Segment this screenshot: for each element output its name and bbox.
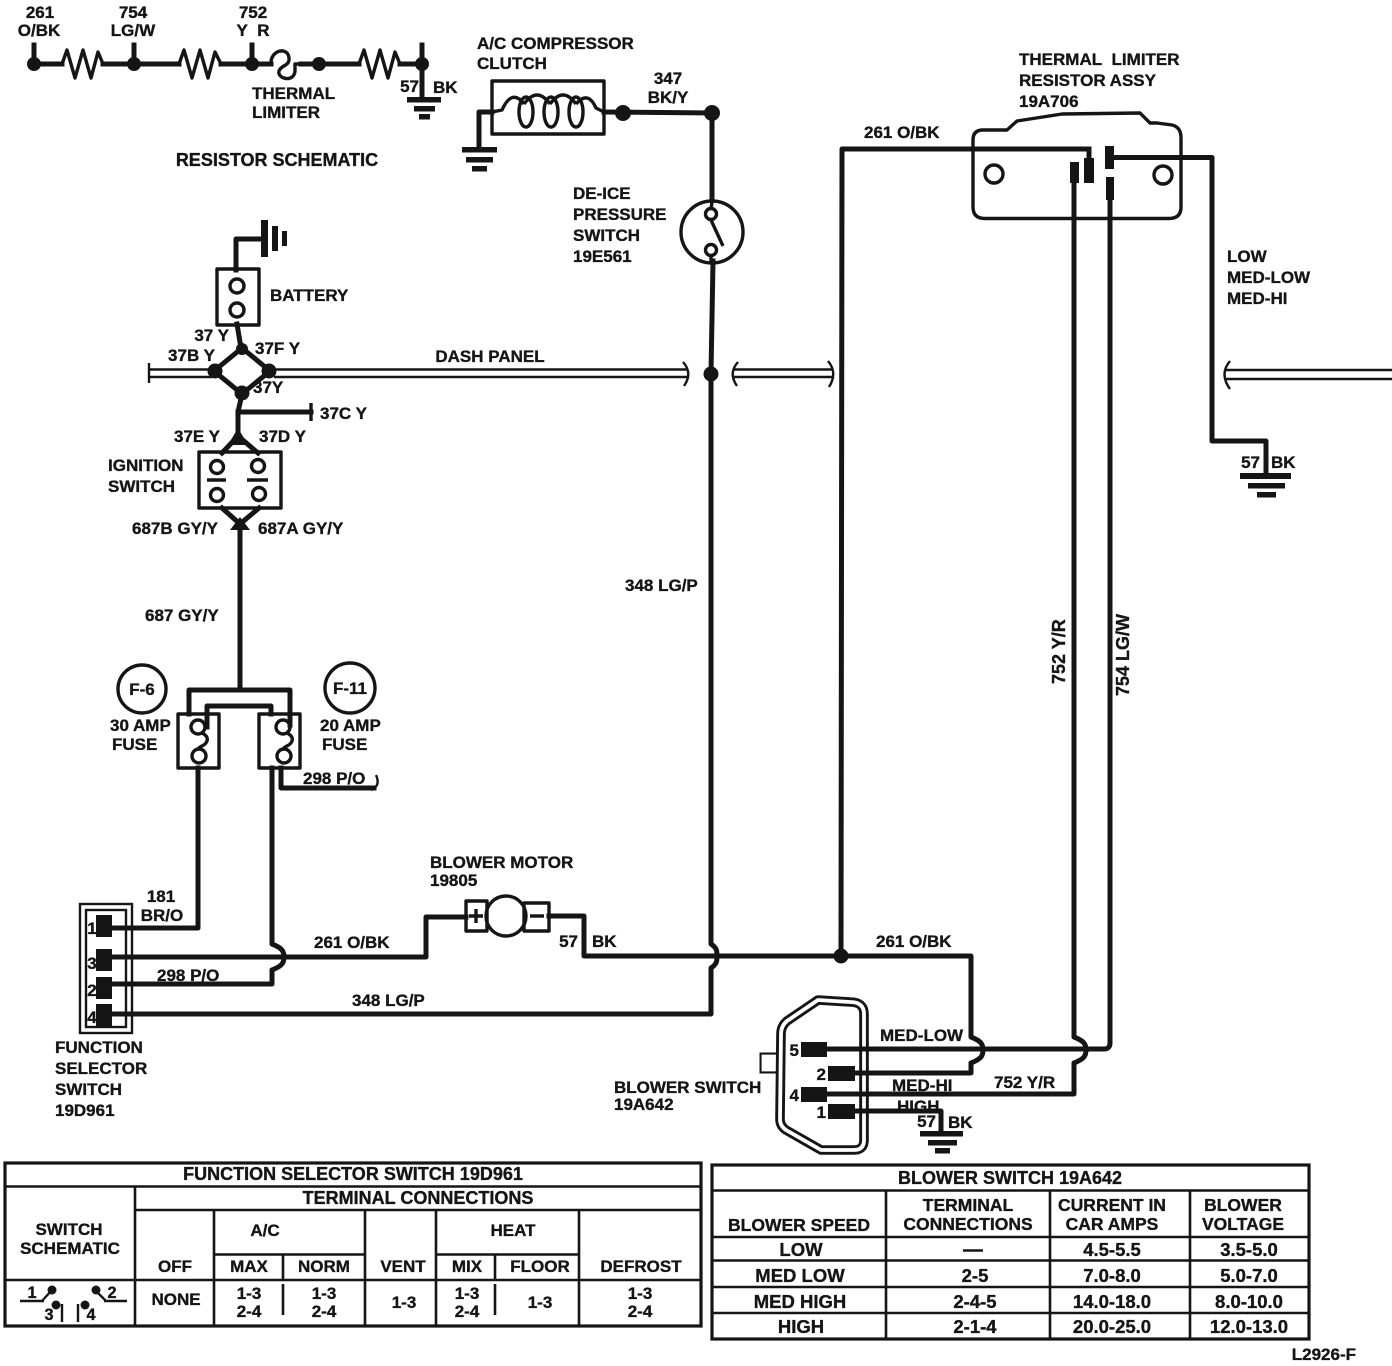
- wire 298 P/O: fuse F-11 down, hop over 261 wire, to pin 2: [112, 768, 284, 984]
- svg-text:SWITCH: SWITCH: [35, 1220, 102, 1239]
- svg-text:RESISTOR ASSY: RESISTOR ASSY: [1019, 71, 1157, 90]
- svg-text:754 LG/W: 754 LG/W: [1113, 614, 1133, 696]
- pin 3: [96, 949, 112, 971]
- wire 347 BK/Y: [604, 112, 712, 113]
- svg-text:19D961: 19D961: [55, 1101, 115, 1120]
- svg-text:298 P/O: 298 P/O: [303, 769, 365, 788]
- svg-text:SELECTOR: SELECTOR: [55, 1059, 147, 1078]
- label circle F-11: [325, 663, 375, 713]
- svg-text:BK: BK: [1271, 453, 1296, 472]
- svg-text:37B Y: 37B Y: [168, 346, 216, 365]
- svg-text:IGNITION: IGNITION: [108, 456, 184, 475]
- svg-text:19A706: 19A706: [1019, 92, 1079, 111]
- wire: battery to ground: [236, 239, 261, 270]
- svg-text:3.5-5.0: 3.5-5.0: [1220, 1239, 1278, 1260]
- svg-text:DASH PANEL: DASH PANEL: [435, 347, 544, 366]
- svg-text:MAX: MAX: [230, 1257, 268, 1276]
- svg-text:181: 181: [147, 887, 175, 906]
- wire 752 Y/R: assy terminal down, hop over MED-LOW, to blower switch pin 4: [830, 183, 1086, 1094]
- svg-text:57: 57: [400, 77, 419, 96]
- svg-text:HIGH: HIGH: [897, 1097, 940, 1116]
- terminal 752: [1070, 162, 1079, 183]
- node stub 57 BK: [420, 45, 425, 64]
- ground (right 57 BK): [1240, 473, 1291, 498]
- svg-text:8.0-10.0: 8.0-10.0: [1215, 1291, 1283, 1312]
- svg-text:Y R: Y R: [236, 21, 269, 40]
- svg-text:BLOWER SWITCH 19A642: BLOWER SWITCH 19A642: [898, 1168, 1122, 1188]
- svg-text:FUSE: FUSE: [112, 735, 157, 754]
- wire 687 GY/Y to fuse block: [238, 526, 243, 689]
- svg-text:L2926-F: L2926-F: [1292, 1345, 1356, 1364]
- svg-text:NORM: NORM: [298, 1257, 350, 1276]
- svg-text:BLOWER: BLOWER: [1204, 1195, 1282, 1215]
- splice diamond 37: [214, 348, 270, 394]
- svg-text:BK: BK: [433, 78, 458, 97]
- svg-text:752: 752: [239, 3, 267, 22]
- wire branch 37C Y: [238, 410, 311, 415]
- fuse F-6 30 AMP box: [178, 714, 219, 768]
- svg-text:20 AMP: 20 AMP: [320, 716, 381, 735]
- svg-text:30 AMP: 30 AMP: [110, 716, 171, 735]
- battery connector: [217, 269, 259, 325]
- svg-text:BATTERY: BATTERY: [270, 286, 349, 305]
- svg-text:348 LG/P: 348 LG/P: [625, 576, 698, 595]
- svg-text:19A642: 19A642: [614, 1095, 674, 1114]
- wire 261 O/BK feed up to thermal limiter assy: [841, 149, 1089, 956]
- svg-text:5.0-7.0: 5.0-7.0: [1220, 1265, 1278, 1286]
- svg-text:TERMINAL: TERMINAL: [923, 1195, 1014, 1215]
- dash panel left segment: [148, 370, 212, 378]
- blower switch pin 5: [801, 1042, 827, 1057]
- blower motor 19805: [466, 901, 487, 931]
- ground (battery, right-facing bars): [261, 220, 287, 257]
- svg-text:261 O/BK: 261 O/BK: [864, 123, 940, 142]
- pin 1: [96, 915, 112, 937]
- wire 57 BK: motor to junction: [549, 916, 838, 956]
- svg-text:DEFROST: DEFROST: [600, 1257, 682, 1276]
- wire 261 O/BK: pin 3 to blower motor: [112, 917, 466, 957]
- thermal limiter element: [271, 51, 301, 79]
- wire HIGH: pin 1 to ground 57 BK: [855, 1111, 941, 1132]
- node junction before thermal limiter output: [312, 57, 326, 71]
- svg-text:LOW: LOW: [1227, 247, 1268, 266]
- svg-text:57: 57: [559, 932, 578, 951]
- svg-text:261 O/BK: 261 O/BK: [314, 933, 390, 952]
- svg-text:FLOOR: FLOOR: [510, 1257, 570, 1276]
- svg-text:20.0-25.0: 20.0-25.0: [1073, 1316, 1151, 1337]
- svg-text:LIMITER: LIMITER: [252, 103, 320, 122]
- node stub 261 O/BK: [32, 45, 37, 64]
- svg-text:BR/O: BR/O: [141, 906, 184, 925]
- dash panel center segment: [274, 370, 688, 378]
- svg-text:F-6: F-6: [129, 680, 155, 699]
- svg-text:MED LOW: MED LOW: [755, 1265, 845, 1286]
- table: blower switch 19A642: [712, 1165, 1309, 1339]
- wire 754 LG/W: assy terminal down to MED-LOW wire: [830, 199, 1110, 1049]
- svg-text:LOW: LOW: [779, 1239, 823, 1260]
- splice 687 below ignition switch: [222, 508, 259, 524]
- svg-text:FUNCTION SELECTOR SWITCH 19D96: FUNCTION SELECTOR SWITCH 19D961: [183, 1164, 523, 1184]
- ignition switch box: [199, 452, 281, 508]
- svg-text:37D Y: 37D Y: [259, 427, 307, 446]
- node: 348 wire at dash panel: [704, 367, 719, 382]
- wire: diamond down to ignition switch: [238, 394, 242, 432]
- svg-text:37 Y: 37 Y: [194, 326, 229, 345]
- wire: 347 down to de-ice switch: [710, 113, 715, 200]
- ground (A/C clutch): [462, 147, 497, 172]
- svg-text:261: 261: [26, 3, 54, 22]
- svg-text:261 O/BK: 261 O/BK: [876, 932, 952, 951]
- svg-text:THERMAL: THERMAL: [252, 84, 335, 103]
- blower switch pin 1: [828, 1104, 855, 1119]
- svg-text:2: 2: [817, 1065, 826, 1084]
- svg-text:SCHEMATIC: SCHEMATIC: [20, 1239, 120, 1258]
- svg-text:2-4-5: 2-4-5: [953, 1291, 996, 1312]
- svg-text:1-3: 1-3: [455, 1284, 480, 1303]
- svg-text:SWITCH: SWITCH: [55, 1080, 122, 1099]
- wire 261 O/BK: junction right, down, hop over MED-LOW, to blower switch pin 2: [841, 956, 983, 1073]
- wire 181 BR/O: fuse F-6 to pin 1: [112, 768, 198, 928]
- wire: clutch to ground: [479, 112, 492, 148]
- wire: battery to splice diamond: [237, 324, 241, 348]
- svg-text:A/C: A/C: [250, 1221, 279, 1240]
- svg-text:4: 4: [87, 1008, 97, 1027]
- svg-text:CAR AMPS: CAR AMPS: [1066, 1214, 1159, 1234]
- svg-text:1: 1: [817, 1103, 826, 1122]
- resistor R2 (754 to 752 section): [179, 50, 221, 78]
- svg-text:2-4: 2-4: [628, 1302, 653, 1321]
- label circle F-6: [118, 665, 166, 713]
- svg-text:37F Y: 37F Y: [255, 339, 301, 358]
- wire: down to ground 57 BK: [420, 64, 425, 97]
- splice into ignition switch: [228, 428, 248, 445]
- table: function selector switch 19D961: [5, 1163, 701, 1326]
- svg-text:BLOWER MOTOR: BLOWER MOTOR: [430, 853, 573, 872]
- de-ice pressure switch 19E561: [681, 201, 743, 263]
- svg-text:CURRENT IN: CURRENT IN: [1058, 1195, 1166, 1215]
- svg-text:HEAT: HEAT: [490, 1221, 536, 1240]
- svg-text:BLOWER SPEED: BLOWER SPEED: [728, 1215, 870, 1235]
- node 347 junction: [704, 105, 720, 121]
- svg-text:3: 3: [44, 1306, 53, 1324]
- fuse feed bus inner: [207, 706, 271, 727]
- node junction 261/57: [834, 949, 849, 964]
- svg-text:2: 2: [87, 981, 96, 1000]
- svg-text:CLUTCH: CLUTCH: [477, 54, 547, 73]
- svg-text:2-1-4: 2-1-4: [953, 1316, 997, 1337]
- svg-text:37E Y: 37E Y: [174, 427, 221, 446]
- svg-text:MED-LOW: MED-LOW: [1227, 268, 1311, 287]
- svg-text:37Y: 37Y: [253, 378, 284, 397]
- svg-text:1-3: 1-3: [237, 1284, 262, 1303]
- svg-text:VOLTAGE: VOLTAGE: [1202, 1214, 1284, 1234]
- switch schematic symbol: [20, 1284, 127, 1324]
- svg-text:752 Y/R: 752 Y/R: [994, 1073, 1055, 1092]
- pin 2: [96, 977, 112, 999]
- svg-text:RESISTOR SCHEMATIC: RESISTOR SCHEMATIC: [176, 150, 378, 170]
- function selector switch connector outline: [80, 904, 132, 1033]
- svg-text:BK: BK: [948, 1113, 973, 1132]
- svg-text:12.0-13.0: 12.0-13.0: [1210, 1316, 1288, 1337]
- wire 348 LG/P: de-ice down through dash panel, hop over 57BK wire, to function selector pin 4: [112, 261, 717, 1014]
- svg-text:OFF: OFF: [158, 1257, 192, 1276]
- blower switch 19A642 connector outline (double line): [763, 1000, 864, 1150]
- svg-text:3: 3: [87, 954, 96, 973]
- wire: resistor schematic main line: [34, 62, 422, 67]
- resistor R1 (261 to 754 section): [62, 50, 103, 78]
- svg-text:19805: 19805: [430, 871, 477, 890]
- svg-text:A/C COMPRESSOR: A/C COMPRESSOR: [477, 34, 634, 53]
- svg-text:1: 1: [87, 919, 96, 938]
- svg-text:1: 1: [27, 1284, 36, 1302]
- fuse feed bus outer: [189, 690, 290, 725]
- wire branch 298 P/O with end hook: [281, 768, 374, 788]
- wire MED-HI pin4 stub: [825, 1092, 872, 1097]
- svg-text:14.0-18.0: 14.0-18.0: [1073, 1291, 1151, 1312]
- blower switch pin 2: [828, 1066, 855, 1081]
- svg-text:347: 347: [654, 69, 682, 88]
- svg-text:752 Y/R: 752 Y/R: [1049, 619, 1069, 684]
- svg-text:PRESSURE: PRESSURE: [573, 205, 667, 224]
- svg-text:SWITCH: SWITCH: [573, 226, 640, 245]
- svg-text:7.0-8.0: 7.0-8.0: [1083, 1265, 1141, 1286]
- fuse F-11 20 AMP box: [259, 714, 300, 768]
- svg-text:SWITCH: SWITCH: [108, 477, 175, 496]
- thermal limiter resistor assy 19A706 body: [973, 113, 1181, 219]
- A/C compressor clutch box: [492, 81, 604, 134]
- ground (blower switch): [920, 1131, 963, 1154]
- svg-text:1-3: 1-3: [628, 1284, 653, 1303]
- svg-text:BK: BK: [592, 932, 617, 951]
- svg-text:O/BK: O/BK: [18, 21, 61, 40]
- svg-text:BK/Y: BK/Y: [648, 88, 689, 107]
- svg-text:37C Y: 37C Y: [320, 404, 368, 423]
- node stub 754 LG/W: [132, 45, 137, 64]
- svg-text:2-4: 2-4: [237, 1302, 262, 1321]
- terminal 261: [1084, 158, 1094, 183]
- node stub 752 Y R: [250, 45, 255, 64]
- svg-text:298 P/O: 298 P/O: [157, 966, 219, 985]
- blower switch pin 4: [801, 1087, 827, 1102]
- svg-text:MED HIGH: MED HIGH: [754, 1291, 847, 1312]
- dash panel right segment: [1225, 370, 1392, 379]
- svg-text:754: 754: [119, 3, 148, 22]
- wire: assy right terminal to dash panel and ground: [1112, 158, 1266, 475]
- dash panel short segment: [733, 370, 832, 378]
- svg-text:MED-HI: MED-HI: [1227, 289, 1287, 308]
- svg-text:4.5-5.5: 4.5-5.5: [1083, 1239, 1141, 1260]
- svg-text:1-3: 1-3: [312, 1284, 337, 1303]
- node at clutch output: [615, 105, 631, 121]
- svg-text:MIX: MIX: [452, 1257, 483, 1276]
- svg-text:CONNECTIONS: CONNECTIONS: [903, 1214, 1032, 1234]
- svg-text:DE-ICE: DE-ICE: [573, 184, 631, 203]
- svg-text:MED-HI: MED-HI: [892, 1076, 952, 1095]
- svg-text:VENT: VENT: [380, 1257, 426, 1276]
- svg-text:687B GY/Y: 687B GY/Y: [132, 519, 219, 538]
- svg-text:F-11: F-11: [333, 679, 367, 698]
- svg-text:HIGH: HIGH: [778, 1316, 824, 1337]
- wire MED-LOW pin5 stub: [825, 1047, 872, 1052]
- svg-text:MED-LOW: MED-LOW: [880, 1026, 964, 1045]
- svg-text:2-4: 2-4: [455, 1302, 480, 1321]
- wire pin2 stub: [853, 1071, 872, 1076]
- svg-text:1-3: 1-3: [528, 1293, 553, 1312]
- ground (resistor schematic): [407, 97, 441, 120]
- pin 4: [96, 1004, 112, 1028]
- resistor R3 (752 to 57 section): [359, 50, 400, 78]
- svg-text:NONE: NONE: [151, 1290, 200, 1309]
- svg-text:TERMINAL CONNECTIONS: TERMINAL CONNECTIONS: [303, 1188, 534, 1208]
- clutch coil winding: [492, 95, 604, 112]
- terminal 754: [1106, 177, 1114, 200]
- svg-text:4: 4: [86, 1306, 95, 1324]
- svg-text:19E561: 19E561: [573, 247, 632, 266]
- svg-text:4: 4: [790, 1086, 800, 1105]
- svg-text:1-3: 1-3: [392, 1293, 417, 1312]
- terminal feed (right top): [1105, 146, 1114, 169]
- svg-text:687 GY/Y: 687 GY/Y: [145, 606, 219, 625]
- svg-text:2: 2: [107, 1284, 116, 1302]
- svg-text:FUSE: FUSE: [322, 735, 367, 754]
- svg-text:LG/W: LG/W: [111, 21, 156, 40]
- svg-text:2-4: 2-4: [312, 1302, 337, 1321]
- svg-text:57: 57: [1241, 453, 1260, 472]
- svg-text:5: 5: [790, 1041, 799, 1060]
- svg-text:FUNCTION: FUNCTION: [55, 1038, 143, 1057]
- svg-text:THERMAL LIMITER: THERMAL LIMITER: [1019, 50, 1180, 69]
- svg-text:2-5: 2-5: [962, 1265, 989, 1286]
- svg-text:348 LG/P: 348 LG/P: [352, 991, 425, 1010]
- svg-text:687A GY/Y: 687A GY/Y: [258, 519, 344, 538]
